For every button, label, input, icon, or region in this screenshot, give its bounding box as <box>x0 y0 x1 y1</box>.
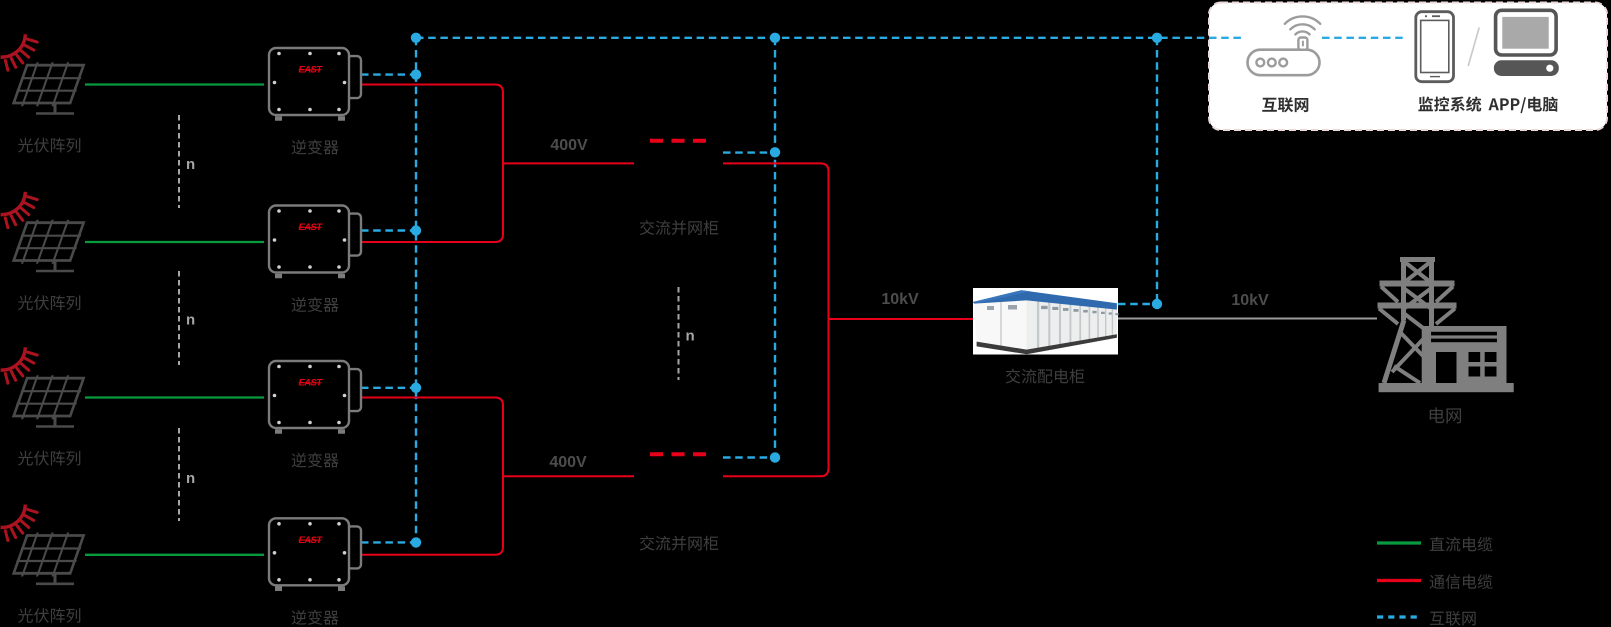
label inverter 2 <box>292 297 339 312</box>
wire internet vertical riser A (inverters) <box>415 38 417 543</box>
wire AC collector to distribution cabinet <box>723 163 829 476</box>
label inverter 1 <box>292 140 339 155</box>
node internet junction 6 <box>411 383 421 393</box>
svg-text:400V: 400V <box>549 454 587 471</box>
PV array 1 icon <box>1 34 87 113</box>
node internet junction 3 <box>1152 33 1162 43</box>
svg-text:10kV: 10kV <box>1231 292 1269 309</box>
wire 10kV to utility grid <box>1118 318 1377 320</box>
separator dashed line middle <box>678 287 680 380</box>
label internet <box>1262 97 1308 112</box>
label AC distribution cabinet <box>1006 369 1084 384</box>
router icon <box>1248 16 1321 75</box>
label PV array 4 <box>18 608 80 623</box>
wire internet vertical riser C (distribution cabinet) <box>1156 38 1158 304</box>
label utility grid <box>1430 407 1461 423</box>
wire internet vertical riser B (grid cabinets) <box>774 38 776 458</box>
wire DC cable PV array 1 to inverter <box>85 83 264 85</box>
legend communication cable <box>1377 579 1421 582</box>
svg-text:n: n <box>186 156 195 173</box>
computer icon <box>1494 10 1559 76</box>
label grid cabinet 2 <box>640 536 718 551</box>
svg-text:400V: 400V <box>550 137 588 154</box>
svg-text:n: n <box>186 470 195 487</box>
node internet junction 9 <box>770 452 780 462</box>
wire internet tab grid cabinet 1 <box>723 151 775 153</box>
PV array 4 icon <box>1 505 87 584</box>
wire AC 400V feeder 2 <box>503 475 634 477</box>
svg-text:n: n <box>186 312 195 329</box>
separator dashed line 3 <box>178 428 180 521</box>
wire AC 400V feeder 1 <box>503 162 634 164</box>
inverter U4 icon <box>269 518 361 591</box>
node internet junction 1 <box>411 33 421 43</box>
node internet junction 8 <box>770 147 780 157</box>
svg-text:10kV: 10kV <box>881 291 919 308</box>
wire DC cable PV array 3 to inverter <box>85 396 264 398</box>
wire internet stub to distribution cabinet <box>1118 303 1157 305</box>
node internet junction 2 <box>770 33 780 43</box>
separator dashed line 1 <box>178 115 180 208</box>
wire AC inverter pair 1 collector <box>361 85 503 243</box>
label grid cabinet 1 <box>640 220 718 235</box>
node internet junction 10 <box>1152 299 1162 309</box>
node internet junction 7 <box>411 537 421 547</box>
wire internet tab inverter 3 <box>361 387 416 389</box>
wire internet bus inside monitor box <box>1322 37 1407 39</box>
legend DC cable <box>1377 541 1421 544</box>
node internet junction 4 <box>411 69 421 79</box>
inverter U3 icon <box>269 361 361 434</box>
wire internet tab grid cabinet 2 <box>723 456 775 458</box>
wire internet tab inverter 2 <box>361 229 416 231</box>
wire internet tab inverter 1 <box>361 73 416 75</box>
wire internet tab inverter 4 <box>361 541 416 543</box>
breaker dashes grid cabinet 2 <box>650 452 706 456</box>
label inverter 4 <box>292 610 339 625</box>
node internet junction 5 <box>411 225 421 235</box>
slash separator <box>1468 28 1479 67</box>
wire DC cable PV array 4 to inverter <box>85 554 264 556</box>
utility grid tower and substation icon <box>1378 259 1457 384</box>
label PV array 3 <box>18 451 80 466</box>
AC distribution cabinet photo <box>973 288 1119 355</box>
separator dashed line 2 <box>178 271 180 365</box>
smartphone icon <box>1416 12 1454 82</box>
breaker dashes grid cabinet 1 <box>650 139 706 143</box>
monitoring panel box <box>1209 3 1607 131</box>
label PV array 2 <box>18 295 80 310</box>
PV array 2 icon <box>1 192 87 271</box>
PV array 3 icon <box>1 347 87 426</box>
label monitoring system <box>1418 96 1557 113</box>
wire AC inverter pair 2 collector <box>361 398 503 555</box>
wire internet top bus <box>416 37 1241 39</box>
svg-text:n: n <box>686 328 695 345</box>
inverter U1 icon <box>269 48 361 121</box>
legend internet <box>1377 615 1421 618</box>
label inverter 3 <box>292 453 339 468</box>
wire DC cable PV array 2 to inverter <box>85 241 264 243</box>
inverter U2 icon <box>269 206 361 279</box>
wire AC 10kV line to distribution cabinet <box>829 318 974 320</box>
label PV array 1 <box>18 138 80 153</box>
